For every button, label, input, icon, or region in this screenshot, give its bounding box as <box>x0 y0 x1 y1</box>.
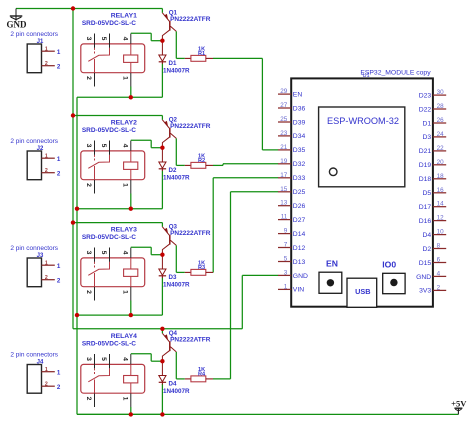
svg-text:11: 11 <box>281 214 288 221</box>
svg-text:3: 3 <box>284 269 288 276</box>
svg-text:8: 8 <box>437 243 441 250</box>
svg-text:SRD-05VDC-SL-C: SRD-05VDC-SL-C <box>82 20 136 27</box>
svg-text:RELAY3: RELAY3 <box>111 227 137 234</box>
svg-text:USB: USB <box>355 287 370 296</box>
svg-text:4: 4 <box>121 37 128 41</box>
svg-text:D17: D17 <box>419 204 432 211</box>
svg-text:4: 4 <box>121 144 128 148</box>
svg-text:10: 10 <box>437 229 445 236</box>
svg-text:23: 23 <box>280 130 288 137</box>
svg-text:25: 25 <box>280 116 288 123</box>
svg-text:27: 27 <box>280 102 288 109</box>
svg-text:5: 5 <box>100 357 107 361</box>
svg-text:5: 5 <box>284 256 288 263</box>
svg-text:3: 3 <box>85 37 92 41</box>
svg-text:2: 2 <box>57 278 61 285</box>
svg-text:1: 1 <box>57 49 61 56</box>
svg-text:D32: D32 <box>293 161 306 168</box>
svg-text:9: 9 <box>284 228 288 235</box>
svg-text:D16: D16 <box>419 218 432 225</box>
svg-text:28: 28 <box>437 103 445 110</box>
svg-text:22: 22 <box>437 145 445 152</box>
svg-text:D4: D4 <box>169 381 177 388</box>
svg-text:RELAY2: RELAY2 <box>111 120 137 127</box>
svg-text:D34: D34 <box>293 133 306 140</box>
svg-text:16: 16 <box>437 187 445 194</box>
svg-text:RELAY1: RELAY1 <box>111 13 137 20</box>
svg-text:2: 2 <box>85 397 92 401</box>
svg-text:D25: D25 <box>293 189 306 196</box>
svg-text:D2: D2 <box>169 167 177 174</box>
svg-text:2: 2 <box>85 76 92 80</box>
svg-text:12: 12 <box>437 215 445 222</box>
svg-text:D1: D1 <box>422 120 431 127</box>
svg-text:1N4007R: 1N4007R <box>163 67 190 74</box>
svg-text:GND: GND <box>7 20 28 30</box>
svg-text:2: 2 <box>437 284 441 291</box>
svg-text:1: 1 <box>57 263 61 270</box>
svg-text:2: 2 <box>57 64 61 71</box>
svg-text:2: 2 <box>85 183 92 187</box>
svg-text:14: 14 <box>437 201 445 208</box>
svg-text:ESP-WROOM-32: ESP-WROOM-32 <box>327 116 399 126</box>
svg-text:SRD-05VDC-SL-C: SRD-05VDC-SL-C <box>82 127 136 134</box>
svg-text:2: 2 <box>57 171 61 178</box>
svg-text:D2: D2 <box>422 246 431 253</box>
svg-text:1: 1 <box>57 370 61 377</box>
svg-text:EN: EN <box>293 91 303 98</box>
svg-text:2 pin connectors: 2 pin connectors <box>10 245 58 252</box>
svg-text:1: 1 <box>121 183 128 187</box>
svg-text:1: 1 <box>121 397 128 401</box>
svg-text:SRD-05VDC-SL-C: SRD-05VDC-SL-C <box>82 340 136 347</box>
svg-text:R2: R2 <box>198 158 205 164</box>
svg-text:PN2222ATFR: PN2222ATFR <box>170 123 211 130</box>
svg-text:2 pin connectors: 2 pin connectors <box>10 352 58 359</box>
svg-text:5: 5 <box>100 37 107 41</box>
svg-text:2: 2 <box>85 290 92 294</box>
svg-text:D39: D39 <box>293 119 306 126</box>
svg-text:3: 3 <box>85 144 92 148</box>
svg-text:1: 1 <box>45 367 48 373</box>
svg-text:29: 29 <box>280 88 288 95</box>
svg-text:5: 5 <box>100 144 107 148</box>
svg-text:3: 3 <box>85 251 92 255</box>
svg-text:D3: D3 <box>169 274 177 281</box>
svg-text:1N4007R: 1N4007R <box>163 174 190 181</box>
svg-text:2 pin connectors: 2 pin connectors <box>10 138 58 145</box>
svg-text:13: 13 <box>280 200 288 207</box>
svg-text:1: 1 <box>57 156 61 163</box>
svg-text:RELAY4: RELAY4 <box>111 333 137 340</box>
svg-text:R3: R3 <box>198 265 205 271</box>
svg-text:17: 17 <box>280 172 288 179</box>
svg-text:4: 4 <box>437 270 441 277</box>
svg-text:26: 26 <box>437 117 445 124</box>
svg-text:19: 19 <box>280 158 288 165</box>
svg-text:2: 2 <box>45 275 48 281</box>
svg-text:D14: D14 <box>293 231 306 238</box>
svg-text:1: 1 <box>45 154 48 160</box>
svg-text:15: 15 <box>280 186 288 193</box>
svg-text:D13: D13 <box>293 259 306 266</box>
svg-text:6: 6 <box>437 257 441 264</box>
svg-text:2: 2 <box>57 384 61 391</box>
svg-text:PN2222ATFR: PN2222ATFR <box>170 16 211 23</box>
svg-text:1: 1 <box>284 283 288 290</box>
svg-text:VIN: VIN <box>293 287 304 294</box>
svg-text:1: 1 <box>45 47 48 53</box>
svg-text:3V3: 3V3 <box>419 288 431 295</box>
svg-text:D15: D15 <box>419 260 432 267</box>
svg-text:EN: EN <box>326 259 338 269</box>
svg-text:30: 30 <box>437 89 445 96</box>
svg-text:D4: D4 <box>422 232 431 239</box>
svg-text:2: 2 <box>45 61 48 67</box>
svg-text:GND: GND <box>293 273 308 280</box>
svg-text:18: 18 <box>437 173 445 180</box>
svg-text:5: 5 <box>100 251 107 255</box>
svg-text:SRD-05VDC-SL-C: SRD-05VDC-SL-C <box>82 234 136 241</box>
svg-text:ESP32_MODULE copy: ESP32_MODULE copy <box>360 69 431 76</box>
svg-text:7: 7 <box>284 242 288 249</box>
svg-text:2: 2 <box>45 168 48 174</box>
svg-text:R1: R1 <box>198 51 205 57</box>
svg-text:D26: D26 <box>293 203 306 210</box>
svg-text:D23: D23 <box>419 92 432 99</box>
svg-text:3: 3 <box>85 357 92 361</box>
svg-text:1: 1 <box>121 290 128 294</box>
svg-text:D1: D1 <box>169 60 177 67</box>
svg-text:1N4007R: 1N4007R <box>163 281 190 288</box>
svg-text:D36: D36 <box>293 105 306 112</box>
svg-text:1: 1 <box>121 76 128 80</box>
svg-text:U1: U1 <box>363 73 370 79</box>
svg-text:4: 4 <box>121 251 128 255</box>
svg-text:GND: GND <box>416 274 431 281</box>
svg-text:20: 20 <box>437 159 445 166</box>
svg-text:2 pin connectors: 2 pin connectors <box>10 31 58 38</box>
svg-text:D21: D21 <box>419 148 432 155</box>
svg-text:2: 2 <box>45 382 48 388</box>
svg-text:D33: D33 <box>293 175 306 182</box>
svg-text:D18: D18 <box>419 176 432 183</box>
svg-text:PN2222ATFR: PN2222ATFR <box>170 337 211 344</box>
svg-text:D3: D3 <box>422 134 431 141</box>
svg-text:D12: D12 <box>293 245 306 252</box>
svg-text:24: 24 <box>437 131 445 138</box>
svg-text:PN2222ATFR: PN2222ATFR <box>170 230 211 237</box>
svg-text:D5: D5 <box>422 190 431 197</box>
svg-text:4: 4 <box>121 357 128 361</box>
svg-text:1: 1 <box>45 261 48 267</box>
svg-text:IO0: IO0 <box>382 259 396 269</box>
svg-text:1N4007R: 1N4007R <box>163 388 190 395</box>
svg-text:R4: R4 <box>198 372 206 378</box>
svg-text:+5V: +5V <box>451 399 467 409</box>
svg-text:D35: D35 <box>293 147 306 154</box>
svg-text:D22: D22 <box>419 106 432 113</box>
svg-text:D27: D27 <box>293 217 306 224</box>
svg-text:D19: D19 <box>419 162 432 169</box>
svg-text:21: 21 <box>280 144 288 151</box>
